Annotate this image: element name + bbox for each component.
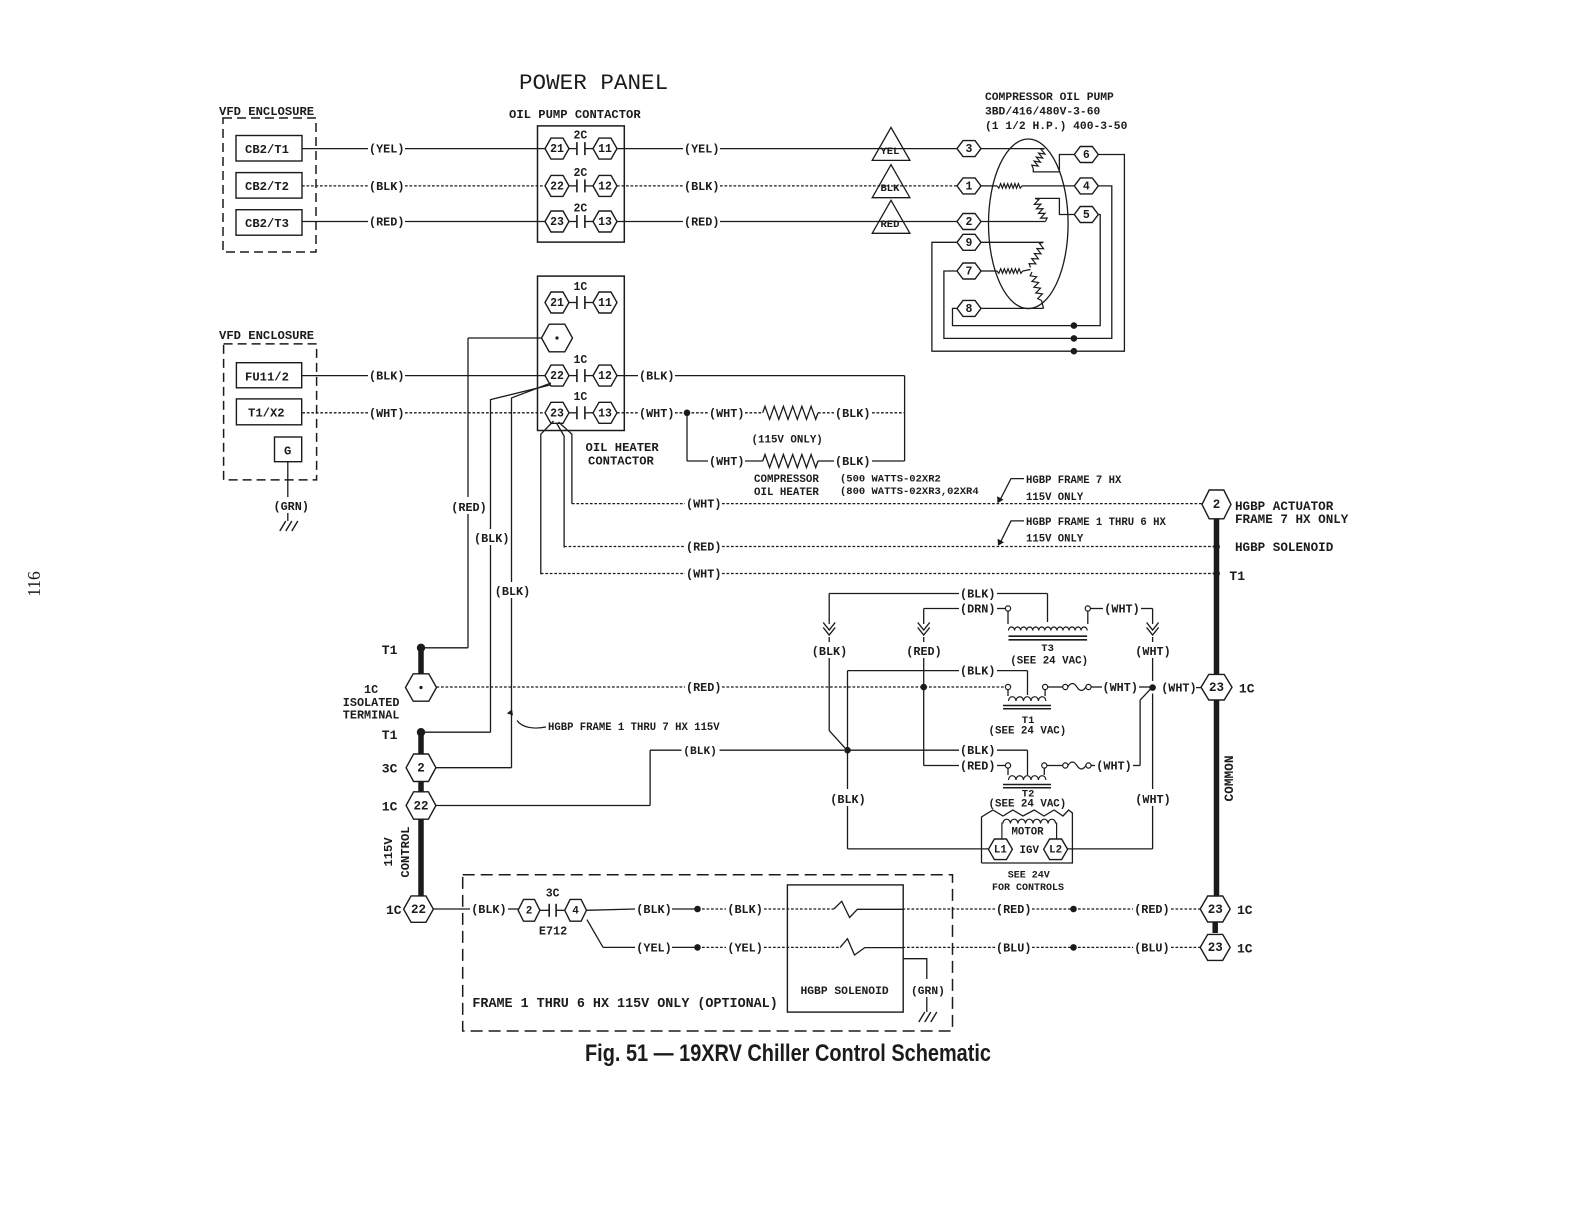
frame dashed box [463, 875, 953, 1031]
terminal 1 [957, 178, 981, 194]
svg-text:T1: T1 [382, 728, 398, 743]
svg-text:IGV: IGV [1020, 845, 1040, 857]
winding phase A upper [1032, 149, 1045, 169]
VFD enclosure 2 dashed box [224, 344, 317, 480]
svg-text:CB2/T3: CB2/T3 [245, 217, 289, 231]
svg-text:3C: 3C [546, 888, 560, 901]
terminal 3 [957, 141, 981, 157]
wire T3 left down [1007, 611, 1009, 624]
wire hex1 into motor [981, 185, 997, 187]
wire CB2/T3 to contactor with (RED) [302, 221, 368, 223]
heater terminal 23 [545, 402, 569, 423]
svg-text:1: 1 [966, 180, 973, 193]
bus 3C to 1C [418, 782, 424, 793]
svg-text:(BLU): (BLU) [1134, 941, 1169, 955]
wire WHT to HGBP actuator [572, 503, 685, 505]
bus T1 to 3C [418, 732, 424, 754]
fan wire 23 to RED rail [557, 423, 565, 548]
wire T3 right up [1087, 611, 1089, 624]
rail BLK chevron [828, 594, 830, 625]
svg-text:1C: 1C [1237, 941, 1253, 956]
terminal G box [275, 437, 302, 462]
svg-text:(WHT): (WHT) [709, 407, 744, 421]
wire winding B to hex 4 [1022, 185, 1074, 187]
svg-text:(1 1/2 H.P.) 400-3-50: (1 1/2 H.P.) 400-3-50 [985, 121, 1128, 133]
heater terminal 22 [545, 365, 569, 386]
IGV motor box with jagged top [982, 810, 1073, 863]
transformer T2 core [1003, 784, 1051, 786]
svg-text:2C: 2C [574, 202, 588, 215]
wire RED isolated to T1 with (RED) [437, 686, 686, 688]
heater terminal 13 [593, 402, 617, 423]
wire bottom 22 to hex 2 [433, 908, 470, 910]
terminal CB2/T3 box [236, 210, 302, 236]
svg-text:CB2/T1: CB2/T1 [245, 143, 289, 157]
wire winding C to hex 5 step [1035, 198, 1074, 214]
svg-text:21: 21 [550, 297, 564, 310]
svg-text:115V: 115V [382, 837, 396, 867]
wire T1 left down [1007, 690, 1009, 696]
svg-text:(BLK): (BLK) [471, 903, 506, 917]
wire T3 BLK feed [829, 593, 959, 595]
svg-text:(BLK): (BLK) [369, 370, 404, 384]
svg-text:G: G [284, 445, 291, 459]
svg-text:BLK: BLK [881, 183, 901, 195]
wire G to ground with (GRN) [287, 462, 289, 497]
svg-text:13: 13 [598, 216, 612, 229]
svg-text:(BLK): (BLK) [812, 645, 847, 659]
terminal 2 bottom [518, 899, 540, 921]
svg-text:HGBP SOLENOID: HGBP SOLENOID [801, 986, 889, 998]
svg-text:21: 21 [550, 143, 564, 156]
VFD enclosure 1 dashed box [223, 118, 316, 252]
svg-text:(WHT): (WHT) [1103, 681, 1138, 695]
svg-text:(WHT): (WHT) [1096, 760, 1131, 774]
triangle RED [872, 200, 910, 233]
svg-text:SEE 24V: SEE 24V [1008, 871, 1050, 882]
terminal 23 (1C) row T1 [1201, 674, 1232, 700]
diagonal hex4 to YEL row [587, 920, 603, 948]
svg-text:22: 22 [550, 370, 564, 383]
svg-text:(BLU): (BLU) [996, 941, 1031, 955]
svg-text:HGBP FRAME 7 HX: HGBP FRAME 7 HX [1026, 475, 1122, 487]
svg-text:(WHT): (WHT) [639, 407, 674, 421]
wire T3 DRN feed [924, 608, 959, 610]
junction dot YEL bottom [694, 944, 701, 951]
svg-text:(RED): (RED) [451, 501, 486, 515]
svg-text:TERMINAL: TERMINAL [343, 709, 400, 723]
rail RED chevron [923, 609, 925, 625]
terminal 8 [957, 300, 981, 316]
terminal CB2/T1 box [236, 136, 302, 162]
junction dot motor loop 3 [1071, 348, 1078, 355]
terminal 6 [1074, 147, 1098, 163]
svg-text:T1/X2: T1/X2 [248, 407, 285, 421]
svg-text:(RED): (RED) [960, 760, 995, 774]
svg-text:(BLK): (BLK) [369, 180, 404, 194]
junction dot RED bottom [1070, 906, 1077, 913]
svg-text:(SEE 24 VAC): (SEE 24 VAC) [1010, 656, 1088, 668]
wire FU11/2 to contactor with (BLK) [302, 375, 368, 377]
wire T2 right up [1043, 768, 1045, 775]
wire T2 BLK feed [650, 749, 681, 751]
terminal CB2/T2 box [236, 173, 302, 199]
contact 2C bars row 3 [569, 221, 577, 223]
winding wye lower [1030, 272, 1042, 301]
svg-text:7: 7 [966, 266, 973, 279]
rail WHT to L2 [1152, 694, 1154, 790]
junction dot RED rail [920, 684, 927, 691]
terminal circle T1 right [1043, 684, 1048, 689]
svg-text:(WHT): (WHT) [1161, 682, 1196, 696]
wire hex4 to solenoid (BLK) [587, 909, 636, 910]
svg-text:OIL PUMP CONTACTOR: OIL PUMP CONTACTOR [509, 108, 641, 122]
heater terminal 12 [593, 365, 617, 386]
svg-text:POWER PANEL: POWER PANEL [519, 70, 668, 96]
svg-text:23: 23 [550, 407, 564, 420]
svg-text:12: 12 [598, 370, 612, 383]
terminal 5 [1074, 207, 1098, 223]
motor stator ellipse [989, 139, 1069, 309]
svg-text:23: 23 [1208, 903, 1223, 917]
heater contact bars row 375.6 [569, 375, 577, 377]
svg-text:(WHT): (WHT) [709, 455, 744, 469]
wire T2 RED feed [924, 765, 959, 767]
svg-text:(GRN): (GRN) [274, 500, 309, 514]
svg-text:(RED): (RED) [686, 681, 721, 695]
wire CB2/T1 to contactor with (YEL) [302, 148, 368, 150]
heater contact bars row 412.8 [569, 412, 577, 414]
wire T1 BLK feed [848, 670, 960, 672]
svg-text:(BLK): (BLK) [960, 665, 995, 679]
wire CB2/T2 to contactor with (BLK) [302, 185, 368, 187]
terminal circle T3 right [1085, 606, 1090, 611]
wire resistor 1 (BLK) [818, 412, 834, 414]
svg-text:5: 5 [1083, 209, 1090, 222]
svg-text:(GRN): (GRN) [911, 986, 945, 998]
junction dot HGBP solenoid [1213, 543, 1220, 550]
svg-text:(500 WATTS-02XR2: (500 WATTS-02XR2 [840, 474, 941, 486]
svg-text:22: 22 [411, 903, 426, 917]
COMMON bus mid [1214, 700, 1220, 896]
svg-text:CB2/T2: CB2/T2 [245, 180, 289, 194]
transformer T1 primary winding [1009, 697, 1046, 701]
terminal 2 HGBP actuator [1202, 490, 1231, 519]
svg-text:11: 11 [598, 297, 612, 310]
wire spare hexagon left [468, 337, 542, 339]
svg-text:115V ONLY: 115V ONLY [1026, 534, 1084, 546]
terminal 21 [545, 138, 569, 159]
junction dot WHT [684, 410, 691, 417]
svg-text:OIL HEATER: OIL HEATER [586, 441, 660, 455]
terminal L2 [1044, 839, 1068, 860]
svg-text:(BLK): (BLK) [495, 585, 530, 599]
svg-text:VFD ENCLOSURE: VFD ENCLOSURE [219, 329, 314, 343]
terminal 23 bottom RED [1200, 896, 1230, 922]
wire 13 to junction with (WHT) [617, 412, 638, 414]
svg-text:1C: 1C [1237, 903, 1253, 918]
resistor oil heater 2 [763, 455, 818, 468]
junction dot motor loop 2 [1071, 335, 1078, 342]
oil pump contactor box [538, 126, 625, 242]
heater terminal 21 [545, 292, 569, 313]
contact 2C bars row 2 [569, 185, 577, 187]
terminal 2 [957, 214, 981, 230]
rail BLK from 22 (left) [491, 385, 551, 529]
svg-text:1C: 1C [574, 354, 588, 367]
svg-text:(WHT): (WHT) [686, 498, 721, 512]
svg-text:1C: 1C [574, 281, 588, 294]
wire T2 BLK feed right [848, 749, 960, 751]
wire hex3 into motor [981, 148, 1045, 150]
wire T1 right up [1044, 690, 1046, 696]
junction dot BLK rail [844, 747, 851, 754]
wire winding A to hex 6 step [1033, 155, 1074, 172]
terminal 4 bottom [565, 899, 587, 921]
svg-text:L2: L2 [1049, 845, 1062, 857]
svg-text:116: 116 [24, 571, 44, 597]
junction dot BLK bottom [694, 906, 701, 913]
fan wire 23 to WHT rail [541, 421, 554, 574]
terminal 22 (1C) [406, 792, 436, 819]
fuse T1 secondary [1048, 686, 1063, 688]
wire BLU to 23 [1074, 946, 1134, 948]
svg-text:L1: L1 [994, 845, 1007, 857]
bus 1C down to bottom 22 [418, 819, 424, 896]
junction dot T1 common [1213, 570, 1220, 577]
terminal circle T2 right [1042, 763, 1047, 768]
svg-text:1C: 1C [574, 391, 588, 404]
svg-text:HGBP ACTUATOR: HGBP ACTUATOR [1235, 500, 1334, 514]
svg-text:11: 11 [598, 143, 612, 156]
wire 1C 22 to BLK riser [436, 805, 650, 807]
rail BLK T1/T2 vertical [847, 671, 849, 751]
svg-text:(YEL): (YEL) [636, 941, 671, 955]
wire junction to resistor 1 (WHT) [687, 412, 708, 414]
svg-text:2: 2 [966, 216, 973, 229]
wire wye left to center [1023, 270, 1031, 272]
svg-text:HGBP SOLENOID: HGBP SOLENOID [1235, 541, 1334, 555]
svg-text:4: 4 [572, 906, 579, 918]
wire 12 to riser (BLK) [617, 375, 638, 377]
ground symbol GRN [280, 521, 286, 531]
svg-text:HGBP FRAME 1 THRU 6 HX: HGBP FRAME 1 THRU 6 HX [1026, 517, 1167, 529]
junction dot WHT common [1149, 684, 1156, 691]
svg-text:1C: 1C [1239, 682, 1255, 697]
svg-text:(RED): (RED) [369, 216, 404, 230]
svg-text:8: 8 [966, 303, 973, 316]
heater terminal 11 [593, 292, 617, 313]
terminal circle T2 left [1005, 763, 1010, 768]
wire hex2 into motor [981, 221, 1045, 223]
contact 2C bars row 1 [569, 148, 577, 150]
wire dot to solenoid box (BLK) [698, 908, 727, 910]
junction dot motor loop 1 [1071, 322, 1078, 329]
transformer T1 core [1003, 705, 1051, 707]
wire BLK riser [904, 376, 906, 461]
svg-text:(RED): (RED) [686, 541, 721, 555]
rail BLK below dot [847, 750, 849, 789]
svg-text:RED: RED [881, 219, 900, 231]
svg-text:CONTACTOR: CONTACTOR [588, 455, 655, 469]
winding phase C [1034, 198, 1047, 221]
svg-text:1C: 1C [364, 683, 378, 697]
oil heater contactor box [538, 276, 625, 430]
svg-text:(WHT): (WHT) [1104, 603, 1139, 617]
fan wire 23 to WHT2 rail [559, 422, 572, 504]
transformer T2 primary winding [1009, 776, 1046, 780]
terminal 11 [593, 138, 617, 159]
svg-text:FU11/2: FU11/2 [245, 371, 289, 385]
IGV motor winding [1003, 819, 1056, 823]
svg-text:CONTROL: CONTROL [399, 826, 413, 877]
wire solenoid YEL to BLU right [903, 946, 996, 948]
svg-text:9: 9 [966, 237, 973, 250]
resistor oil heater 1 [763, 406, 818, 419]
svg-text:Fig. 51 — 19XRV Chiller Contro: Fig. 51 — 19XRV Chiller Control Schemati… [585, 1040, 991, 1067]
wire RED to HGBP solenoid [564, 546, 685, 548]
terminal T1/X2 box [236, 399, 301, 425]
svg-text:(WHT): (WHT) [686, 568, 721, 582]
svg-text:(BLK): (BLK) [727, 903, 762, 917]
terminal 9 [957, 234, 981, 250]
transformer T3 primary winding [1009, 627, 1088, 630]
svg-text:T3: T3 [1041, 643, 1054, 655]
wire hex9 into motor [981, 241, 1044, 243]
winding wye left [997, 269, 1023, 274]
svg-text:COMPRESSOR OIL PUMP: COMPRESSOR OIL PUMP [985, 92, 1114, 104]
svg-text:(BLK): (BLK) [684, 180, 719, 194]
wire solenoid BLK to RED right [903, 908, 996, 910]
wire RED to 23 [1074, 908, 1134, 910]
svg-text:(YEL): (YEL) [727, 941, 762, 955]
HGBP solenoid box [787, 885, 903, 1012]
terminal 22 bottom (1C) [404, 896, 434, 922]
svg-text:HGBP FRAME 1 THRU 7 HX 115V: HGBP FRAME 1 THRU 7 HX 115V [548, 722, 720, 734]
svg-text:1C: 1C [382, 800, 398, 815]
svg-text:(RED): (RED) [996, 903, 1031, 917]
svg-text:MOTOR: MOTOR [1012, 827, 1045, 839]
terminal 23 [545, 211, 569, 232]
leader arrow frame 1-7 [517, 721, 546, 729]
svg-text:(DRN): (DRN) [960, 603, 995, 617]
svg-text:23: 23 [550, 216, 564, 229]
svg-text:E712: E712 [539, 925, 567, 939]
terminal 13 [593, 211, 617, 232]
transformer T3 core [1009, 635, 1088, 637]
heater spare hexagon with dot [542, 324, 573, 352]
svg-text:(YEL): (YEL) [369, 143, 404, 157]
svg-text:VFD ENCLOSURE: VFD ENCLOSURE [219, 105, 314, 119]
wire dot to solenoid (YEL) [698, 946, 727, 948]
isolated terminal hexagon [406, 674, 437, 701]
svg-text:(WHT): (WHT) [369, 407, 404, 421]
COMMON bus between 23s [1212, 921, 1218, 933]
svg-text:COMMON: COMMON [1222, 755, 1237, 801]
COMMON bus upper [1214, 519, 1220, 675]
terminal 23 bottom BLU [1200, 934, 1230, 960]
rail BLK from 22 (right) [512, 383, 552, 582]
svg-text:(BLK): (BLK) [835, 455, 870, 469]
svg-text:T1: T1 [1229, 569, 1245, 584]
svg-text:(YEL): (YEL) [684, 143, 719, 157]
winding wye upper [1029, 242, 1044, 267]
wire WHT dropper [686, 413, 688, 461]
svg-text:(BLK): (BLK) [683, 746, 717, 758]
junction dot T1 upper [417, 644, 425, 652]
terminal 7 [957, 263, 981, 279]
wire hex8 into motor [981, 307, 1044, 309]
svg-text:(BLK): (BLK) [636, 903, 671, 917]
svg-text:1C: 1C [386, 903, 402, 918]
svg-text:(RED): (RED) [906, 645, 941, 659]
wire 12... triangle BLK row [617, 185, 683, 187]
wire YEL row [603, 946, 635, 948]
svg-text:(SEE 24 VAC): (SEE 24 VAC) [989, 799, 1067, 811]
svg-text:(800 WATTS-02XR3,02XR4: (800 WATTS-02XR3,02XR4 [840, 486, 979, 498]
IGV winding taps [1001, 823, 1003, 840]
svg-text:(WHT): (WHT) [1135, 645, 1170, 659]
svg-text:2C: 2C [574, 130, 588, 143]
terminal 4 [1074, 178, 1098, 194]
terminal FU11/2 box [236, 363, 301, 388]
svg-text:(BLK): (BLK) [639, 370, 674, 384]
wire hex5 right loop [953, 215, 1101, 326]
svg-text:(BLK): (BLK) [830, 793, 865, 807]
wire T1/X2 to contactor with (WHT) [302, 412, 368, 414]
svg-text:(BLK): (BLK) [960, 588, 995, 602]
svg-text:(WHT): (WHT) [1135, 793, 1170, 807]
wire hex7 into motor [981, 270, 997, 272]
terminal 2 (3C) [406, 754, 436, 782]
solenoid break BLK [834, 901, 903, 917]
svg-text:22: 22 [413, 799, 428, 813]
wire 13... triangle RED row [617, 221, 683, 223]
wire BLK rail to L1 [848, 848, 989, 850]
svg-text:OIL HEATER: OIL HEATER [754, 487, 819, 499]
terminal circle T1 left [1005, 684, 1010, 689]
svg-text:3C: 3C [382, 762, 398, 777]
wire 11 to hex 3 with (YEL) and YEL triangle [617, 148, 683, 150]
svg-text:(115V ONLY): (115V ONLY) [752, 435, 823, 447]
ground symbol solenoid [919, 1012, 925, 1022]
junction dot BLU bottom [1070, 944, 1077, 951]
svg-text:2: 2 [1213, 498, 1221, 512]
svg-text:23: 23 [1209, 681, 1224, 695]
wire hex6 right loop [932, 155, 1125, 352]
svg-text:T1: T1 [382, 643, 398, 658]
terminal 22 [545, 175, 569, 196]
svg-text:3: 3 [966, 143, 973, 156]
svg-text:2: 2 [526, 906, 533, 918]
wire resistor 2 (BLK) [818, 460, 834, 462]
svg-text:(BLK): (BLK) [835, 407, 870, 421]
svg-text:(RED): (RED) [684, 216, 719, 230]
svg-text:2: 2 [417, 761, 425, 775]
terminal L1 [988, 839, 1012, 860]
svg-text:115V ONLY: 115V ONLY [1026, 492, 1084, 504]
svg-text:(BLK): (BLK) [474, 532, 509, 546]
svg-text:COMPRESSOR: COMPRESSOR [754, 474, 819, 486]
svg-text:2C: 2C [574, 167, 588, 180]
leader arrow frame 1-6 [1000, 521, 1024, 544]
svg-text:YEL: YEL [881, 146, 900, 158]
wire T2 left down [1007, 768, 1009, 775]
wire resistor row 2 (WHT) [687, 460, 708, 462]
svg-text:3BD/416/480V-3-60: 3BD/416/480V-3-60 [985, 107, 1100, 119]
bus T1 to isolated terminal [418, 648, 424, 674]
triangle YEL [872, 127, 910, 160]
